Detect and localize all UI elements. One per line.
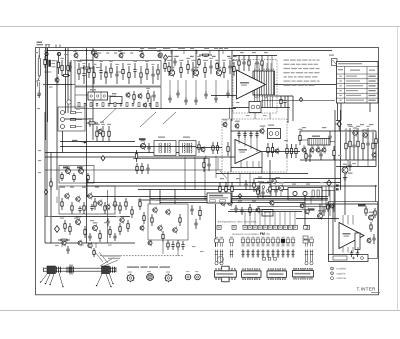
resistor R18 — [186, 58, 190, 74]
resistor R105 — [249, 204, 251, 216]
resistor R75 — [262, 181, 264, 195]
label text — [220, 178, 224, 179]
capacitor C59 — [356, 251, 359, 258]
node C — [337, 121, 341, 127]
label text — [37, 108, 40, 109]
resistor R50 — [71, 118, 76, 120]
wire — [315, 190, 335, 192]
transistor Q38 — [76, 195, 80, 202]
wire — [169, 80, 171, 95]
wire — [209, 51, 211, 55]
resistor R3 — [60, 58, 64, 76]
switch symbol — [304, 226, 308, 230]
capacitor C60 — [372, 234, 375, 244]
transistor Q6 — [119, 52, 123, 59]
dark label — [358, 204, 366, 206]
label text — [352, 163, 356, 164]
junction — [141, 50, 142, 51]
label text — [263, 115, 267, 116]
resistor R67 — [267, 143, 269, 157]
detector box — [288, 188, 322, 201]
op-amp U2 triangle — [235, 140, 261, 164]
transistor Q50 — [158, 224, 162, 231]
wire — [328, 186, 330, 197]
capacitor C52 — [244, 180, 247, 190]
wire — [47, 48, 49, 122]
wire — [87, 196, 328, 198]
wire — [233, 55, 277, 57]
wire — [61, 243, 63, 247]
wire — [269, 200, 271, 204]
wire — [304, 197, 306, 227]
label text — [166, 48, 170, 49]
wire — [45, 216, 52, 218]
title underline — [371, 291, 380, 293]
wire — [336, 166, 376, 168]
label text — [195, 271, 199, 272]
IF module block — [88, 92, 108, 100]
legend — [331, 267, 347, 281]
transistor Q47 — [106, 204, 110, 211]
wire — [45, 242, 135, 244]
resistor R65 — [216, 142, 218, 154]
resistor R102 — [143, 212, 145, 224]
wire — [159, 51, 161, 54]
wire — [52, 216, 130, 218]
transistor Q41 — [76, 216, 82, 226]
wire — [345, 128, 347, 131]
capacitor C43 — [66, 246, 69, 254]
transistor Q32 — [275, 148, 279, 155]
capacitor C55 — [261, 188, 264, 198]
label text — [90, 220, 94, 221]
label text — [98, 53, 101, 54]
label text — [93, 51, 97, 52]
resistor R82 — [64, 220, 66, 232]
capacitor C24 — [68, 62, 71, 72]
label text — [270, 180, 274, 181]
wire — [170, 51, 172, 55]
transistor Q3 — [91, 49, 95, 56]
capacitor C27 — [255, 55, 258, 71]
transistor Q55 — [256, 207, 260, 214]
wire — [44, 112, 46, 243]
resistor R68 — [271, 143, 273, 157]
wire — [310, 197, 312, 205]
transistor Q17 — [310, 147, 314, 154]
capacitor C25 — [38, 90, 41, 98]
label text — [118, 51, 121, 52]
IC package U6 (top view) — [267, 269, 287, 280]
IF filter section box — [75, 87, 161, 109]
label text — [329, 55, 334, 56]
wire — [50, 153, 52, 244]
junction — [362, 130, 363, 131]
wire — [95, 243, 97, 248]
wire — [272, 95, 274, 108]
resistor R87 — [119, 223, 121, 235]
resistor R109 — [365, 206, 367, 216]
node D — [327, 180, 332, 186]
capacitor C44 — [78, 206, 81, 213]
wire — [375, 131, 377, 167]
label text — [108, 258, 120, 259]
resistor R14 — [157, 64, 159, 80]
transistor Q5 — [94, 52, 98, 59]
wire — [255, 178, 341, 180]
label text — [360, 124, 364, 125]
wire — [256, 131, 258, 152]
svg-text:tonalité: tonalité — [337, 267, 347, 271]
wire — [75, 51, 77, 54]
resistor R78 — [71, 202, 73, 214]
transistor Q24 — [98, 128, 102, 135]
label text — [116, 216, 120, 217]
long diagonal wire — [140, 112, 156, 127]
capacitor C10 — [168, 95, 171, 103]
label text — [240, 82, 249, 84]
resistor R34 — [80, 67, 93, 69]
label text — [130, 53, 133, 54]
capacitor C3 — [115, 64, 119, 84]
capacitor C15 — [214, 95, 217, 103]
wire — [330, 141, 335, 143]
label text — [60, 218, 64, 219]
oscillator transformer T3 — [268, 129, 281, 139]
wire — [269, 160, 271, 197]
op-amp U8 triangle — [339, 223, 364, 249]
wire — [162, 242, 164, 254]
assembly legs — [40, 273, 114, 288]
resistor R31 — [138, 103, 140, 107]
resistor R97 — [179, 214, 181, 226]
wire — [259, 95, 261, 108]
label text — [284, 140, 288, 141]
transistor Q14 — [55, 77, 59, 84]
wire — [60, 146, 196, 148]
label text — [292, 184, 296, 185]
capacitor C48 — [171, 241, 174, 250]
wire — [229, 108, 231, 120]
wire — [99, 252, 108, 263]
wire — [80, 59, 93, 61]
label text — [246, 115, 250, 116]
label text — [241, 85, 247, 86]
drum pulley left — [47, 266, 56, 274]
wire — [62, 131, 64, 153]
key designation squares — [217, 225, 310, 229]
label text — [175, 56, 179, 57]
transistor Q12 — [126, 92, 130, 99]
resistor R86 — [109, 226, 111, 238]
transistor Q52 — [148, 240, 152, 247]
resistor R63 — [203, 158, 205, 172]
resistor R51 — [71, 125, 76, 127]
resistor R49 — [71, 111, 76, 113]
wire — [195, 51, 197, 71]
resistor R81 — [104, 202, 106, 214]
resistor R48 — [375, 134, 377, 148]
label text — [163, 48, 168, 49]
ceramic filter CF2 — [110, 97, 122, 104]
resistor R90 — [119, 202, 121, 214]
wire — [95, 51, 97, 54]
wire — [67, 48, 69, 113]
resistor R99 — [167, 240, 169, 250]
resistor R6 — [88, 63, 90, 78]
wire — [300, 203, 378, 205]
label text — [95, 187, 99, 188]
transistor Q40 — [98, 199, 102, 206]
wire — [347, 247, 349, 253]
label text — [276, 177, 280, 178]
resistor R15 — [163, 58, 167, 72]
wire — [177, 80, 179, 90]
lamp indicator — [159, 53, 163, 57]
resistor R20 — [203, 60, 208, 78]
label text — [37, 80, 40, 81]
capacitor C38 — [237, 131, 240, 138]
junction — [86, 50, 87, 51]
label text — [104, 222, 108, 223]
resistor R89 — [114, 198, 116, 210]
wire — [185, 80, 187, 97]
wire — [335, 123, 339, 125]
resistor R24 — [133, 91, 135, 103]
wire — [87, 185, 377, 187]
transistor Q43 — [120, 216, 124, 223]
wire — [357, 247, 359, 253]
wire — [287, 96, 289, 123]
label text — [152, 48, 156, 49]
label text — [343, 233, 351, 235]
wire — [292, 96, 294, 121]
resistor R40 — [298, 129, 302, 145]
label text — [55, 245, 59, 246]
wire — [319, 204, 321, 214]
pointer callout lines — [100, 258, 118, 267]
wire — [174, 190, 176, 205]
wire — [138, 199, 328, 201]
resistor R53 — [95, 124, 100, 142]
wire — [321, 186, 323, 216]
junction — [92, 50, 93, 51]
wire — [86, 48, 88, 243]
wire — [230, 119, 232, 172]
transistor Q61 — [367, 237, 371, 244]
wire — [300, 159, 376, 161]
tuning shaft — [44, 267, 117, 272]
resistor R38 — [261, 55, 263, 71]
label text — [106, 53, 109, 54]
junction — [92, 50, 93, 51]
label text — [190, 48, 194, 49]
wire — [275, 95, 294, 97]
wire — [38, 82, 40, 90]
wire — [60, 141, 135, 143]
IF transformer T1 — [154, 141, 176, 156]
transistor Q1 — [45, 52, 48, 55]
resistor R59 — [135, 150, 137, 162]
wire — [177, 250, 179, 256]
node G — [55, 226, 60, 233]
resistor R69 — [286, 144, 288, 158]
label text — [344, 236, 350, 237]
transistor Q42 — [93, 222, 98, 232]
wire — [45, 156, 235, 158]
label text — [174, 199, 178, 200]
node H — [44, 190, 47, 195]
resistor R80 — [94, 198, 96, 210]
label text — [183, 137, 190, 138]
resistor R91 — [125, 198, 127, 210]
capacitor C42 — [106, 218, 109, 226]
transistor Q34 — [228, 199, 232, 206]
wire — [342, 215, 344, 225]
resistor R5 — [77, 61, 81, 80]
capacitor C34 — [348, 161, 351, 171]
wire — [300, 130, 376, 132]
resistor R9 — [109, 61, 112, 78]
label text — [258, 177, 262, 178]
resistor R23 — [232, 60, 237, 76]
label text — [70, 187, 74, 188]
wire — [150, 198, 328, 200]
wire — [369, 103, 371, 112]
resistor R42 — [348, 126, 353, 160]
capacitor C47 — [113, 233, 116, 241]
switch symbol — [303, 236, 308, 243]
label text — [239, 149, 248, 151]
transistor Q31 — [260, 126, 265, 135]
wire — [246, 161, 248, 168]
label text — [157, 51, 160, 52]
wire — [196, 147, 222, 149]
wire — [46, 48, 48, 217]
wire — [332, 205, 334, 259]
capacitor C36 — [146, 164, 149, 174]
wire — [352, 215, 354, 225]
label text — [100, 122, 104, 123]
resistor R62 — [198, 141, 200, 153]
wire — [344, 190, 346, 215]
resistor R32 — [156, 103, 158, 107]
capacitor C20 — [108, 104, 110, 108]
polarized capacitor C91 — [336, 188, 339, 190]
wire — [195, 80, 197, 97]
wire — [86, 178, 88, 197]
wire — [104, 71, 108, 73]
label text — [347, 124, 352, 125]
speaker connector box — [329, 255, 369, 262]
junction — [171, 50, 172, 51]
wire — [230, 209, 305, 211]
junction — [65, 50, 66, 51]
wire — [108, 95, 116, 97]
capacitor C57 — [322, 206, 325, 216]
dark label — [77, 167, 83, 169]
wire — [160, 202, 305, 204]
wire — [184, 157, 186, 190]
label text — [38, 160, 41, 161]
wire — [323, 145, 325, 148]
wire — [254, 95, 256, 108]
wire — [46, 84, 76, 86]
wire — [46, 50, 333, 52]
schematic border frame — [36, 48, 379, 295]
wire — [347, 160, 349, 167]
IC region dashed box U2 — [222, 119, 287, 172]
wire — [280, 191, 282, 197]
capacitor C35 — [147, 143, 150, 153]
transistor Q33 — [221, 199, 225, 206]
frame tick marks — [45, 45, 60, 48]
resistor R79 — [83, 202, 85, 214]
wire — [270, 63, 272, 71]
wire — [347, 215, 349, 225]
resistor R30 — [126, 103, 128, 107]
notes paragraph — [284, 60, 320, 86]
label text — [322, 127, 327, 128]
label text — [122, 53, 125, 54]
tuner section box — [75, 61, 161, 87]
transistor Q23 — [372, 152, 376, 159]
wire — [194, 157, 196, 190]
page top edge line — [0, 26, 400, 28]
wire — [357, 160, 359, 167]
label text — [52, 63, 56, 64]
wire — [87, 182, 340, 184]
wire — [336, 120, 341, 122]
resistor R4 — [62, 75, 70, 77]
resistor R108 — [327, 202, 329, 212]
wire — [56, 197, 58, 204]
label text — [192, 246, 196, 247]
wire — [311, 145, 313, 148]
stereo decoder box — [59, 186, 115, 214]
resistor R39 — [280, 96, 282, 107]
IC package U7 (top view) — [293, 268, 314, 279]
resistor R85 — [99, 230, 101, 242]
bearing bars — [70, 265, 72, 275]
diode D1 — [49, 60, 51, 67]
wire — [183, 51, 185, 55]
node A — [163, 55, 167, 61]
IC package U4 (top view) — [215, 266, 237, 282]
label text — [76, 109, 80, 110]
capacitor C54 — [240, 207, 243, 215]
wire — [150, 96, 152, 109]
wire — [56, 60, 58, 190]
wire — [204, 157, 206, 200]
coil former — [67, 100, 71, 104]
junction — [86, 50, 87, 51]
resistor R76 — [267, 181, 269, 195]
capacitor C26 — [242, 55, 245, 71]
resistor R61 — [141, 163, 143, 174]
label text — [162, 199, 167, 200]
wire — [233, 107, 290, 109]
switch contact row — [215, 237, 314, 247]
resistor R47 — [333, 146, 335, 160]
svg-text:T.INTER: T.INTER — [357, 286, 377, 291]
resistor R27 — [90, 103, 92, 107]
label text — [178, 48, 182, 49]
wire — [334, 110, 336, 190]
polarized capacitor C90 — [336, 185, 339, 187]
label text — [236, 102, 240, 103]
wire — [249, 173, 251, 190]
